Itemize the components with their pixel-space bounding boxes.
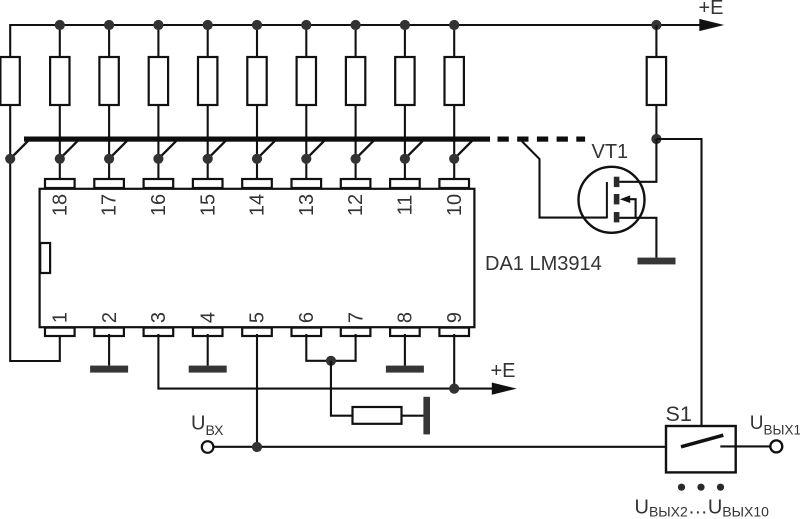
wire R12 to ground [401,415,424,417]
wire R10 to pin 9 [453,105,455,182]
svg-text:6: 6 [296,312,318,323]
node bus tap pin 17 [60,141,78,159]
node rail junction 6 [252,20,262,30]
resistor R7 [297,57,316,105]
wire R11 to VT1 drain node [655,105,657,139]
node rail junction 5 [203,20,213,30]
wire pins 6,7 junction [306,334,355,361]
wire rail to R6 [256,25,258,57]
wire bus to VT1 gate [522,141,606,217]
svg-text:17: 17 [99,194,121,216]
wire rail to R3 [108,25,110,57]
svg-text:13: 13 [296,194,318,216]
svg-text:VT1: VT1 [592,141,629,163]
node rail junction 8 [351,20,361,30]
node rail junction 3 [104,20,114,30]
wire rail to R5 [207,25,209,57]
transistor VT1 (MOSFET) circle [579,167,645,233]
wire LED-bus dashed continuation [498,137,509,142]
ground (pin 2) [90,366,128,373]
node rail junction 10 [449,20,459,30]
VT1 body arrow [620,195,630,203]
pin 15 box [193,179,223,188]
wire rail to R1 [9,24,11,57]
svg-text:15: 15 [197,194,219,216]
pin 6 box [292,328,322,336]
wire input line [214,446,682,448]
wire rail to R9 [404,25,406,57]
pin 16 box [144,179,174,188]
pin 13 box [292,179,322,188]
VT1 channel bar middle [614,194,620,204]
node bus tap pin 13 [257,141,275,159]
wire R9 to pin 10 [404,105,406,182]
svg-text:+E: +E [491,360,516,382]
wire rail to R10 [453,25,455,57]
wire pin 9 to +E line [453,334,455,389]
node rail junction 2 [55,20,65,30]
wire pin 3 to +E arrow [158,334,494,389]
node bus tap pin 15 [158,141,176,159]
VT1 channel bar bottom [614,212,620,222]
VT1 gate electrode [606,182,608,218]
node input / pin 5 [252,442,262,452]
ground (pin 4) [189,366,227,373]
VT1 drain wire [619,139,656,182]
pin 18 box [45,179,75,188]
pin 9 box [439,328,469,336]
resistor R11 [647,57,666,105]
node pin 9 / +E [449,384,459,394]
switch S1 box [666,426,736,472]
pin 1 box [45,328,75,336]
resistor R2 [50,57,69,105]
wire junction to R12 [331,361,353,416]
node bus tap pin 16 [109,141,127,159]
svg-text:S1: S1 [666,402,692,426]
IC DA1 LM3914 body [40,189,475,327]
S1 more-contacts dots [678,484,685,491]
resistor R10 [445,57,464,105]
svg-text:1: 1 [50,312,72,323]
terminal Uvx [202,441,214,453]
wire rail to R7 [305,25,307,57]
node VT1 drain junction [651,134,661,144]
resistor R5 [198,57,217,105]
S1 output contact wire [720,445,769,447]
wire rail to R4 [157,25,159,57]
wire +E supply rail [10,24,701,26]
resistor R4 [149,57,168,105]
pin 8 box [390,328,420,336]
resistor R9 [395,57,414,105]
svg-text:12: 12 [345,194,367,216]
node bus tap pin 10 [405,141,423,159]
VT1 channel bar top [614,177,620,187]
pin 17 box [94,179,124,188]
pin 10 box [439,179,469,188]
svg-text:16: 16 [148,194,170,216]
node bus tap pin 12 [306,141,324,159]
node bus tap pin 14 [208,141,226,159]
node rail junction 4 [153,20,163,30]
svg-text:9: 9 [444,312,466,323]
wire R8 to pin 11 [355,105,357,182]
resistor R8 [346,57,365,105]
svg-text:10: 10 [444,194,466,216]
wire pin 8 to ground [404,334,406,366]
terminal Uvyx1 [770,440,782,452]
svg-text:11: 11 [395,195,417,216]
node rail junction 7 [301,20,311,30]
node R1 bus tap [10,141,28,159]
resistor R12 (horizontal) [353,407,402,424]
pin 11 box [390,179,420,188]
resistor R6 [247,57,266,105]
svg-text:4: 4 [197,312,219,323]
ground (R12, vertical bar) [423,397,430,435]
svg-text:2: 2 [99,312,121,323]
IC key notch [40,243,50,273]
svg-text:18: 18 [49,194,71,216]
pin 5 box [242,328,272,336]
pin 7 box [341,328,371,336]
VT1 source wire [619,218,656,258]
svg-text:3: 3 [148,312,170,323]
wire pin 2 to ground [108,334,110,366]
wire R1 bottom to pin 1 loop [10,105,60,361]
pin 2 box [94,328,124,336]
svg-text:+E: +E [699,0,724,19]
wire R2 to pin 17 [59,105,61,182]
power arrow +E (top) [699,19,724,31]
pin 12 box [341,179,371,188]
node rail junction right [651,20,661,30]
ground (pin 8) [386,366,424,373]
wire R3 to pin 16 [108,105,110,182]
resistor R1 [0,57,19,105]
power arrow +E (bottom) [492,383,517,395]
wire rail to R2 [59,25,61,57]
wire pin 4 to ground [207,334,209,366]
node bus tap pin 9 [454,141,472,159]
svg-text:14: 14 [247,194,269,216]
node bus tap pin 11 [356,141,374,159]
resistor R3 [99,57,118,105]
wire LED-bus (thick) [24,137,490,142]
pin 3 box [144,328,174,336]
wire R5 to pin 14 [207,105,209,182]
svg-text:7: 7 [345,312,367,323]
pin 4 box [193,328,223,336]
ground (VT1 source) [638,258,676,265]
wire R7 to pin 12 [305,105,307,182]
node rail junction 9 [400,20,410,30]
wire rail to R8 [355,25,357,57]
node pins 6-7 [326,356,336,366]
svg-text:DA1 LM3914: DA1 LM3914 [485,253,602,275]
svg-text:8: 8 [395,312,417,323]
pin 14 box [242,179,272,188]
svg-text:5: 5 [247,312,269,323]
wire rail to R11 [655,25,657,57]
S1 blade [681,435,723,447]
wire pin 5 to input node [256,334,258,447]
wire R6 to pin 13 [256,105,258,182]
wire VT1 drain node to S1 [656,139,701,426]
wire R4 to pin 15 [157,105,159,182]
